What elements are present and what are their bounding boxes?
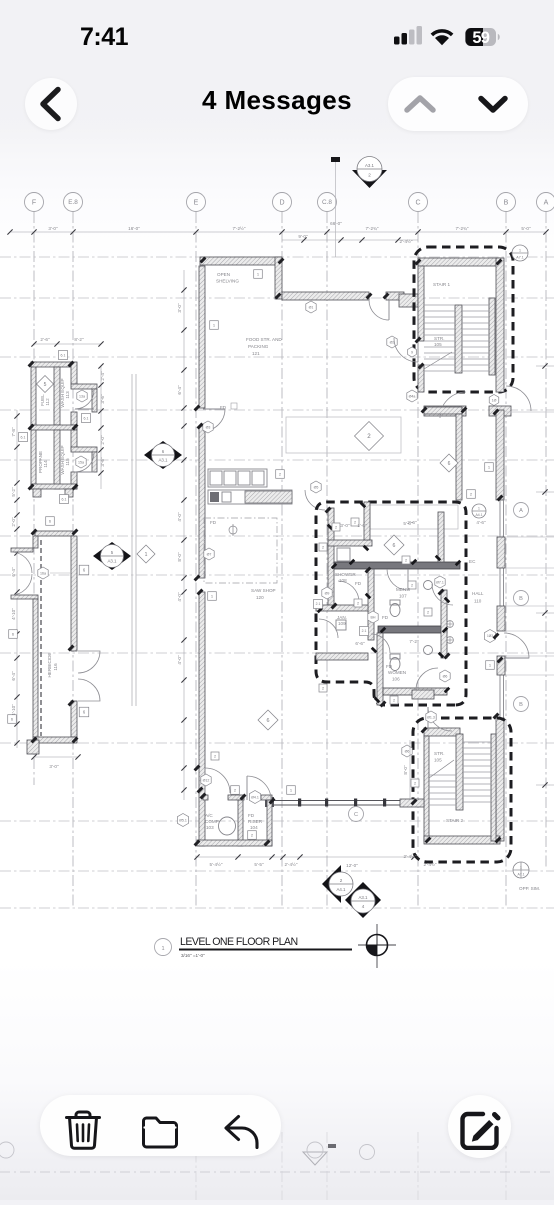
svg-text:2'-4½": 2'-4½" bbox=[404, 853, 417, 859]
tag 6.1 a bbox=[59, 351, 68, 360]
dim text hall 2-6 bbox=[407, 520, 417, 525]
grid row y357 bbox=[0, 356, 554, 358]
wall outbuilding east lower bbox=[71, 430, 77, 449]
svg-text:2: 2 bbox=[214, 754, 216, 758]
wall herbicide west bbox=[33, 599, 38, 737]
core dashed enclosure bbox=[316, 502, 466, 705]
tag 2 core b bbox=[319, 543, 327, 551]
svg-text:2'-4½": 2'-4½" bbox=[285, 861, 298, 867]
svg-text:5'-4½": 5'-4½" bbox=[210, 861, 223, 867]
diamond 6 below stair1 bbox=[440, 454, 458, 472]
svg-text:13a: 13a bbox=[79, 394, 85, 398]
svg-text:2'-0": 2'-0" bbox=[11, 517, 16, 527]
dim text south bbox=[210, 861, 437, 868]
wall stair2 protrusion bbox=[400, 799, 424, 807]
svg-text:5: 5 bbox=[44, 382, 47, 388]
door arc below stair1 right bbox=[506, 386, 554, 412]
wifi icon bbox=[431, 29, 454, 45]
fixture jan sink bbox=[336, 620, 346, 630]
svg-text:121: 121 bbox=[252, 351, 260, 356]
svg-text:4'-0": 4'-0" bbox=[177, 512, 182, 522]
svg-text:59: 59 bbox=[472, 29, 489, 47]
svg-text:2: 2 bbox=[354, 520, 356, 524]
dim text 2-4 stair2 bbox=[404, 853, 417, 859]
svg-text:7'-2¾": 7'-2¾" bbox=[456, 226, 469, 231]
stair2 treads bbox=[429, 742, 491, 805]
svg-text:103: 103 bbox=[206, 825, 214, 830]
wall outbuilding divider upper bbox=[54, 367, 60, 425]
svg-text:B: B bbox=[504, 199, 509, 206]
svg-text:16'-0": 16'-0" bbox=[128, 226, 140, 231]
svg-text:Ø1: Ø1 bbox=[309, 305, 314, 309]
tag 2 core i bbox=[351, 518, 359, 526]
wall L below stair1 vert bbox=[456, 414, 462, 500]
label HALL bbox=[472, 591, 484, 604]
dim text 66ft bbox=[330, 221, 342, 226]
grid row y575 bbox=[0, 574, 554, 576]
svg-text:108: 108 bbox=[339, 578, 347, 583]
svg-text:1Ø3: 1Ø3 bbox=[487, 634, 493, 638]
diamond 2 openarea bbox=[355, 422, 384, 451]
wall stair1 bottom right bbox=[489, 406, 511, 416]
wall main top left bbox=[200, 257, 281, 265]
svg-text:1: 1 bbox=[145, 552, 148, 558]
status bar right icons bbox=[388, 24, 508, 48]
svg-text:FD: FD bbox=[355, 581, 362, 586]
diamond 6 sawshop bbox=[258, 710, 278, 730]
door arc main west top bbox=[203, 409, 225, 431]
grid bubble F bbox=[25, 193, 44, 212]
svg-text:2.1: 2.1 bbox=[362, 629, 367, 633]
grid line E.8 bbox=[72, 212, 74, 908]
tag 2 acc a bbox=[231, 786, 240, 795]
svg-text:6: 6 bbox=[267, 718, 270, 724]
herbicide door stub lower bbox=[11, 595, 38, 599]
svg-text:120: 120 bbox=[256, 595, 264, 600]
circle C storefront bbox=[349, 807, 364, 822]
folder icon bbox=[140, 1112, 180, 1152]
svg-text:C: C bbox=[415, 199, 420, 206]
wall stair2 topleft bbox=[424, 728, 460, 736]
svg-text:1: 1 bbox=[478, 507, 480, 511]
svg-text:JAN.: JAN. bbox=[337, 615, 347, 620]
wall east thin lower bbox=[500, 656, 504, 718]
grid row y536 bbox=[0, 535, 554, 537]
svg-text:106: 106 bbox=[392, 677, 400, 682]
svg-text:2: 2 bbox=[340, 878, 343, 883]
hex stair2 door bbox=[426, 711, 436, 723]
grid row y653 bbox=[0, 652, 554, 654]
grid row y821 bbox=[0, 820, 554, 822]
door arc stair2 top bbox=[428, 707, 452, 731]
dim column west wall bbox=[181, 270, 186, 800]
svg-text:4'-0": 4'-0" bbox=[177, 655, 182, 665]
svg-text:2: 2 bbox=[411, 583, 413, 587]
svg-text:WOMEN: WOMEN bbox=[388, 670, 406, 675]
tag 2 acc b bbox=[248, 831, 257, 840]
svg-text:2: 2 bbox=[427, 610, 429, 614]
up/down pill bbox=[388, 77, 528, 131]
grid row y743 bbox=[0, 742, 554, 744]
svg-text:Ø6: Ø6 bbox=[405, 749, 410, 753]
tag 2 counter bbox=[276, 470, 285, 479]
door arc mens bbox=[387, 569, 408, 590]
svg-text:Ø1.3: Ø1.3 bbox=[427, 715, 435, 719]
svg-text:BH: BH bbox=[371, 615, 376, 619]
svg-text:B: B bbox=[519, 702, 523, 708]
section marker 5/A3.1 bbox=[93, 542, 131, 570]
outbuilding top dims bbox=[31, 337, 103, 347]
svg-text:A: A bbox=[519, 508, 523, 514]
svg-text:E.8: E.8 bbox=[68, 199, 78, 206]
label FD core a bbox=[355, 581, 362, 586]
grid row y410 bbox=[0, 409, 554, 411]
tag 1 open shelving bbox=[254, 270, 263, 279]
label FD food bbox=[220, 403, 237, 410]
core upper room outline bbox=[370, 505, 458, 529]
svg-text:3'-0": 3'-0" bbox=[48, 226, 58, 231]
compose icon bbox=[458, 1106, 502, 1150]
svg-text:A3.1: A3.1 bbox=[158, 457, 168, 462]
wall east pier 2 bbox=[497, 606, 505, 631]
bottom toolbar pill bbox=[40, 1095, 281, 1156]
wall core women west bbox=[377, 633, 383, 705]
dim rot left 432 bbox=[11, 427, 16, 437]
grid bubble C bbox=[409, 193, 428, 212]
wall outbuilding west bbox=[31, 362, 36, 489]
svg-text:A3.1: A3.1 bbox=[365, 163, 375, 168]
tag 1 sawshop bbox=[208, 592, 217, 601]
svg-text:6.1: 6.1 bbox=[21, 435, 26, 439]
svg-text:MEN'S: MEN'S bbox=[396, 587, 410, 592]
wall core west bbox=[328, 508, 334, 608]
svg-text:Ø9: Ø9 bbox=[325, 591, 330, 595]
next sheet circle bbox=[360, 1145, 375, 1160]
wall main top mid bbox=[282, 292, 369, 300]
wall core main dark bbox=[334, 562, 460, 569]
dim text 239 bbox=[233, 225, 246, 231]
svg-text:3'-0": 3'-0" bbox=[340, 523, 350, 528]
circle plus a bbox=[447, 621, 454, 628]
dim column far left bbox=[14, 410, 19, 748]
wall herbicide north bbox=[35, 531, 73, 536]
tag 2 core a bbox=[332, 523, 340, 531]
svg-text:6.1: 6.1 bbox=[84, 416, 89, 420]
wall acc top 3 bbox=[261, 795, 272, 800]
svg-text:2: 2 bbox=[414, 781, 416, 785]
svg-text:15a: 15a bbox=[78, 460, 84, 464]
tag 6.1 b bbox=[82, 414, 91, 423]
wall east pier 1 bbox=[497, 537, 505, 568]
svg-text:116: 116 bbox=[53, 663, 58, 671]
tag 6 left b bbox=[8, 715, 17, 724]
herbicide bottom dim bbox=[31, 754, 80, 769]
svg-text:EC: EC bbox=[469, 559, 476, 564]
svg-text:A/C: A/C bbox=[205, 813, 213, 818]
wall outbuilding east u2 bbox=[71, 412, 77, 425]
svg-text:C: C bbox=[354, 812, 358, 818]
tag 2 core g bbox=[319, 684, 327, 692]
grid bubble A bbox=[537, 193, 554, 212]
svg-text:STAIR 1: STAIR 1 bbox=[433, 282, 450, 287]
title scale bbox=[181, 953, 205, 958]
svg-text:4'-10": 4'-10" bbox=[11, 704, 16, 716]
hex O12 acc bbox=[201, 774, 211, 786]
dim rot west 390 bbox=[177, 385, 182, 395]
svg-text:112: 112 bbox=[45, 398, 50, 406]
svg-text:FD: FD bbox=[386, 664, 393, 669]
door arc acc 2 bbox=[247, 776, 271, 800]
tag 21 core a bbox=[314, 600, 323, 609]
fixture sink womens bbox=[424, 646, 433, 655]
dim rot west 597 bbox=[177, 592, 182, 602]
next sheet marker bbox=[303, 1142, 327, 1165]
fixture shower pan bbox=[337, 548, 350, 561]
east wall projection lines bbox=[506, 537, 554, 675]
svg-text:6.1: 6.1 bbox=[61, 353, 66, 357]
wall main west 1 bbox=[199, 266, 205, 408]
tag 2 core d bbox=[408, 581, 416, 589]
hex 10 door bbox=[489, 395, 499, 406]
svg-text:2: 2 bbox=[405, 558, 407, 562]
right edge tick 2 bbox=[536, 489, 554, 494]
wall stair1 west lower bbox=[418, 365, 424, 392]
wall stair1 west upper bbox=[418, 266, 424, 341]
wall blocking marks bbox=[317, 502, 462, 704]
svg-text:3'-6": 3'-6" bbox=[100, 394, 105, 404]
svg-text:C.8: C.8 bbox=[322, 199, 332, 206]
circle marker east mid bbox=[472, 504, 486, 518]
tag 1 food bbox=[210, 321, 219, 330]
svg-text:8'-2": 8'-2" bbox=[74, 337, 84, 342]
hex door O3 bbox=[203, 421, 213, 433]
svg-text:OPEN: OPEN bbox=[217, 272, 230, 277]
door arc womens bbox=[416, 668, 438, 690]
hex 13a bbox=[77, 390, 87, 402]
tag 21 core b bbox=[360, 627, 369, 636]
label OPP SIM bbox=[519, 886, 540, 891]
svg-text:STR.: STR. bbox=[434, 336, 444, 341]
svg-text:A: A bbox=[544, 199, 549, 206]
svg-text:F: F bbox=[32, 199, 36, 206]
wall main east stair1 bbox=[496, 258, 504, 392]
hex BH core bbox=[368, 611, 378, 623]
svg-text:7'-2½": 7'-2½" bbox=[233, 225, 246, 231]
wall main east stair2 bbox=[496, 718, 504, 841]
down chevron bbox=[475, 77, 511, 131]
hex 15a bbox=[76, 456, 86, 468]
dim text 53 bbox=[48, 226, 58, 231]
wall stair2 west bbox=[424, 736, 429, 841]
section marker 2/A4.1 bbox=[322, 865, 353, 903]
svg-text:4'-6": 4'-6" bbox=[476, 520, 486, 525]
wall stair1 top bbox=[418, 258, 500, 266]
door arc wash equip 115 bbox=[75, 453, 94, 472]
grid line E bbox=[195, 212, 197, 908]
svg-text:2.1: 2.1 bbox=[316, 602, 321, 606]
door arc east hall bbox=[504, 633, 529, 658]
svg-text:104: 104 bbox=[250, 825, 258, 830]
grid line A bbox=[545, 212, 547, 868]
svg-text:114: 114 bbox=[43, 460, 48, 468]
dimension line top bbox=[7, 229, 548, 234]
wall stair1 protrusion bbox=[399, 294, 418, 307]
title viewport circle bbox=[155, 939, 172, 956]
wall herbicide east lower bbox=[71, 701, 77, 737]
door arc top mid bbox=[369, 300, 389, 320]
svg-text:7'-8": 7'-8" bbox=[11, 427, 16, 437]
svg-text:6: 6 bbox=[393, 543, 396, 549]
title text bbox=[180, 936, 298, 948]
svg-text:109: 109 bbox=[338, 621, 346, 626]
svg-text:4'-0": 4'-0" bbox=[177, 592, 182, 602]
section marker A3.1/4 bbox=[345, 882, 381, 918]
svg-text:HERBICIDE: HERBICIDE bbox=[47, 652, 52, 677]
door arc jan bbox=[319, 619, 338, 638]
grid row y298 bbox=[0, 297, 554, 299]
svg-text:9'-0": 9'-0" bbox=[298, 234, 308, 239]
right edge tick 4 bbox=[536, 782, 554, 787]
wall core mens east bbox=[438, 512, 444, 562]
wall core east lower bbox=[441, 590, 447, 658]
tag 6 outbuilding bbox=[46, 517, 55, 526]
storefront wall bbox=[272, 799, 414, 807]
grid row y460 bbox=[0, 459, 554, 461]
svg-text:LEVEL ONE FLOOR PLAN: LEVEL ONE FLOOR PLAN bbox=[180, 936, 298, 948]
hex stair1 door bbox=[408, 347, 417, 357]
svg-text:A3.1: A3.1 bbox=[107, 558, 117, 563]
herbicide door stub upper bbox=[11, 548, 33, 552]
tag 1 east hall bbox=[486, 661, 495, 670]
hex 16a bbox=[38, 567, 71, 579]
hex O51 acc bbox=[177, 814, 188, 827]
dim line south bbox=[194, 854, 418, 859]
tag 1 east bbox=[485, 463, 494, 472]
svg-text:SHELVING: SHELVING bbox=[216, 279, 239, 284]
door arc hall east bbox=[432, 584, 453, 605]
room label FUEL bbox=[40, 394, 50, 406]
svg-text:3/16" =1'-0": 3/16" =1'-0" bbox=[181, 953, 205, 958]
svg-text:1: 1 bbox=[519, 249, 521, 253]
wall east pier 3 bbox=[497, 656, 505, 675]
grid bubble E bbox=[187, 193, 206, 212]
up chevron (disabled) bbox=[402, 77, 438, 131]
wall outbuilding mid bbox=[31, 425, 77, 430]
grid bubble C.8 bbox=[318, 193, 337, 212]
wall stair2 bottom bbox=[424, 836, 500, 844]
room label WASH EQUIP 115 bbox=[60, 445, 70, 474]
wall acc bottom bbox=[197, 840, 272, 846]
svg-text:Ø4a: Ø4a bbox=[409, 394, 416, 398]
svg-text:6'-6": 6'-6" bbox=[355, 641, 365, 646]
wall stair2 inner right bbox=[491, 734, 496, 841]
dim rot left 492 bbox=[11, 487, 16, 497]
door arc herbicide east 2 bbox=[78, 679, 100, 701]
label FD core c bbox=[386, 664, 393, 669]
tag 6 left a bbox=[9, 630, 18, 639]
svg-text:Ø5: Ø5 bbox=[314, 485, 319, 489]
status bar time bbox=[80, 25, 128, 50]
bubble A east bbox=[514, 503, 529, 518]
wall core shower north bbox=[328, 540, 372, 546]
dim rot west 308 bbox=[177, 303, 182, 313]
dim rot west 517 bbox=[177, 512, 182, 522]
door arc herbicide east 1 bbox=[78, 651, 100, 673]
wall acc top 1 bbox=[203, 795, 208, 800]
svg-text:Ø12: Ø12 bbox=[203, 778, 210, 782]
svg-text:8'-0": 8'-0" bbox=[403, 765, 408, 775]
room label PROPANE bbox=[38, 451, 48, 473]
hex O4a bbox=[407, 390, 417, 402]
svg-text:105: 105 bbox=[434, 342, 442, 347]
tag 2 core f bbox=[424, 608, 432, 616]
svg-text:2'-0": 2'-0" bbox=[100, 435, 105, 445]
label EC bbox=[469, 559, 476, 564]
hex door O7 bbox=[204, 548, 214, 560]
wall outbuilding bump2 east bbox=[92, 452, 97, 472]
bubble B east 1 bbox=[514, 591, 529, 606]
room label OPEN SHELVING bbox=[216, 272, 239, 284]
label STAIR 2 bbox=[446, 818, 463, 823]
svg-text:A4.1: A4.1 bbox=[476, 513, 483, 517]
hex O6 stair2 bbox=[402, 745, 412, 757]
wall main west 2 bbox=[199, 426, 205, 578]
dim subline D-C8 bbox=[282, 237, 418, 242]
hex door O1 bbox=[306, 301, 316, 313]
grid line C bbox=[417, 212, 419, 908]
svg-text:SAW SHOP: SAW SHOP bbox=[251, 588, 276, 593]
roof outline rect bbox=[286, 417, 401, 453]
label AC COMP bbox=[205, 813, 219, 830]
room label SAW SHOP bbox=[251, 588, 276, 600]
stair1 up arrow bbox=[424, 352, 452, 369]
svg-text:2: 2 bbox=[335, 525, 337, 529]
svg-text:Ø7: Ø7 bbox=[207, 552, 212, 556]
sawshop dashdot zone bbox=[204, 518, 277, 583]
trash icon bbox=[63, 1109, 103, 1151]
wall L below stair1 horiz bbox=[424, 407, 462, 414]
svg-text:FD: FD bbox=[248, 813, 255, 818]
section tick top bbox=[331, 157, 340, 257]
svg-text:1'-6": 1'-6" bbox=[357, 523, 367, 528]
dim rot left 614 bbox=[11, 608, 16, 620]
hex door O2 bbox=[387, 336, 397, 348]
dim text 9ft bbox=[298, 234, 308, 239]
stair1 treads bbox=[424, 305, 489, 371]
reply arrow icon bbox=[221, 1112, 261, 1152]
svg-text:5'-0": 5'-0" bbox=[521, 226, 531, 231]
door arc herbicide west 1 bbox=[11, 552, 32, 573]
svg-text:Ø5.1: Ø5.1 bbox=[179, 818, 187, 822]
wall herbicide east upper bbox=[71, 536, 77, 651]
wall core top vert bbox=[364, 502, 370, 540]
svg-text:107: 107 bbox=[399, 594, 407, 599]
svg-text:STR.: STR. bbox=[434, 751, 444, 756]
top gradient backdrop bbox=[0, 0, 554, 150]
svg-text:6'-4": 6'-4" bbox=[11, 567, 16, 577]
hex O71 core bbox=[435, 576, 445, 588]
svg-text:2: 2 bbox=[393, 698, 395, 702]
dim rot left 572 bbox=[11, 567, 16, 577]
cellular signal bars bbox=[394, 26, 422, 45]
tag 2 core c bbox=[402, 556, 410, 564]
wall outbuilding bottom bbox=[31, 484, 77, 489]
svg-text:FD: FD bbox=[210, 520, 217, 525]
svg-text:115: 115 bbox=[65, 458, 70, 466]
herbicide inner dashed bbox=[40, 540, 42, 736]
svg-text:B: B bbox=[519, 596, 523, 602]
room label FOOD STR bbox=[246, 337, 282, 356]
